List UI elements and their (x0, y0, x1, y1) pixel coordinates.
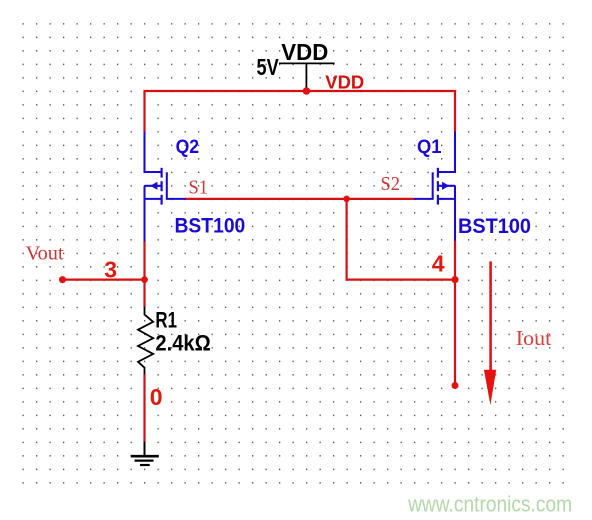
svg-text:www.cntronics.com: www.cntronics.com (407, 492, 572, 517)
svg-text:0: 0 (150, 384, 163, 410)
svg-text:4: 4 (432, 251, 445, 277)
svg-text:Vout: Vout (26, 243, 64, 265)
svg-text:S2: S2 (381, 173, 401, 195)
svg-text:VDD: VDD (325, 73, 364, 93)
svg-text:2.4kΩ: 2.4kΩ (155, 330, 210, 355)
svg-text:VDD: VDD (281, 39, 328, 65)
svg-text:BST100: BST100 (175, 215, 246, 238)
svg-text:BST100: BST100 (458, 215, 531, 238)
svg-text:Q1: Q1 (417, 136, 442, 158)
svg-text:Iout: Iout (516, 326, 552, 350)
svg-text:R1: R1 (155, 307, 177, 332)
svg-text:5V: 5V (257, 54, 280, 80)
svg-text:Q2: Q2 (176, 136, 200, 158)
svg-text:S1: S1 (189, 177, 209, 199)
svg-text:3: 3 (104, 256, 117, 282)
